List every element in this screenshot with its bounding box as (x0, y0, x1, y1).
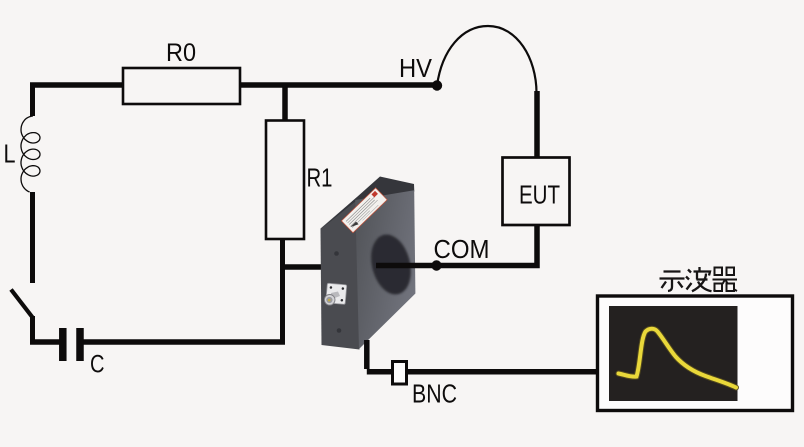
svg-text:R0: R0 (166, 39, 196, 67)
svg-text:L: L (4, 139, 16, 169)
svg-text:C: C (90, 351, 105, 379)
svg-text:BNC: BNC (412, 379, 457, 409)
svg-text:HV: HV (399, 53, 433, 83)
svg-text:EUT: EUT (519, 180, 560, 210)
svg-text:R1: R1 (307, 163, 333, 193)
svg-text:COM: COM (434, 234, 490, 264)
